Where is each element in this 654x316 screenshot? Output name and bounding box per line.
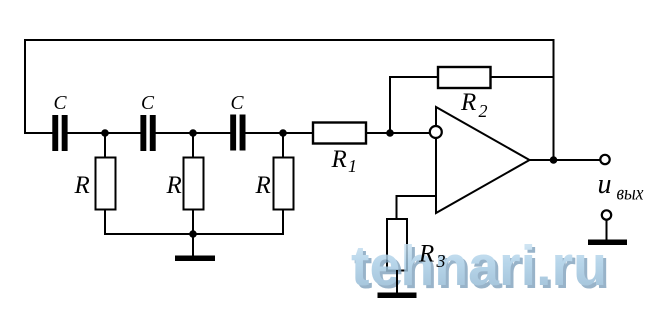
svg-text:R: R bbox=[166, 172, 182, 199]
wire feedback left vertical bbox=[24, 40, 26, 134]
wire main line segment 1 bbox=[24, 132, 53, 134]
op-amp inverting input circle bbox=[430, 126, 442, 138]
wire R2 right lead bbox=[491, 76, 555, 78]
wire feedback top horizontal bbox=[24, 39, 554, 41]
wire main line segment 3 bbox=[155, 132, 231, 134]
capacitor C2 bbox=[140, 115, 155, 151]
svg-text:tehnari.ru: tehnari.ru bbox=[351, 234, 607, 298]
svg-text:3: 3 bbox=[436, 251, 446, 271]
node 2 junction bbox=[189, 129, 197, 137]
svg-text:R: R bbox=[418, 241, 434, 268]
node 4 junction bottom bbox=[189, 230, 197, 238]
capacitor C1 bbox=[52, 115, 67, 151]
wire noninverting input bbox=[397, 196, 437, 220]
svg-text:R: R bbox=[255, 172, 271, 199]
watermark tehnari.ru bbox=[351, 234, 610, 301]
node 6 junction output bbox=[550, 156, 558, 164]
node 5 junction inverting input bbox=[386, 129, 394, 137]
node 1 junction bbox=[101, 129, 109, 137]
wire R1bottom down bbox=[104, 210, 106, 236]
svg-text:C: C bbox=[231, 93, 245, 114]
svg-text:вых: вых bbox=[617, 183, 644, 205]
wire node5 up to R2 bbox=[389, 77, 391, 134]
resistor R (first shunt) bbox=[96, 158, 116, 210]
ground terminal circle right bbox=[602, 210, 611, 219]
svg-text:C: C bbox=[141, 93, 155, 114]
wire R2bottom down bbox=[192, 210, 194, 236]
wire R3bottom down bbox=[282, 210, 284, 236]
wire node2 to R down bbox=[192, 133, 194, 158]
svg-text:R: R bbox=[74, 172, 90, 199]
svg-text:u: u bbox=[598, 169, 612, 200]
op-amp U1 bbox=[436, 107, 530, 213]
resistor R (second shunt) bbox=[184, 158, 204, 210]
wire node3 to R down bbox=[282, 133, 284, 158]
svg-text:R: R bbox=[331, 146, 347, 173]
node 3 junction bbox=[279, 129, 287, 137]
ground R3 (drawn over watermark) bbox=[378, 270, 417, 298]
svg-text:1: 1 bbox=[348, 156, 357, 176]
wire opamp output bbox=[530, 159, 600, 161]
wire main line segment 4 bbox=[245, 132, 314, 134]
svg-text:R: R bbox=[460, 89, 476, 116]
svg-text:2: 2 bbox=[479, 101, 488, 121]
wire main line segment 2 bbox=[67, 132, 141, 134]
wire feedback right vertical bbox=[553, 39, 555, 160]
capacitor C3 bbox=[230, 115, 245, 151]
svg-text:C: C bbox=[54, 93, 68, 114]
wire R1 out to opamp bbox=[366, 132, 432, 134]
ground right bbox=[588, 220, 627, 245]
wire node1 to R down bbox=[104, 133, 106, 158]
output terminal circle bbox=[600, 155, 609, 164]
wire R2 left lead bbox=[389, 76, 438, 78]
resistor R1 bbox=[313, 123, 366, 144]
resistor R (third shunt) bbox=[274, 158, 294, 210]
resistor R2 bbox=[438, 67, 491, 88]
ground middle bbox=[175, 234, 215, 261]
wire bottom bus bbox=[104, 233, 284, 235]
resistor R3 bbox=[387, 219, 407, 271]
